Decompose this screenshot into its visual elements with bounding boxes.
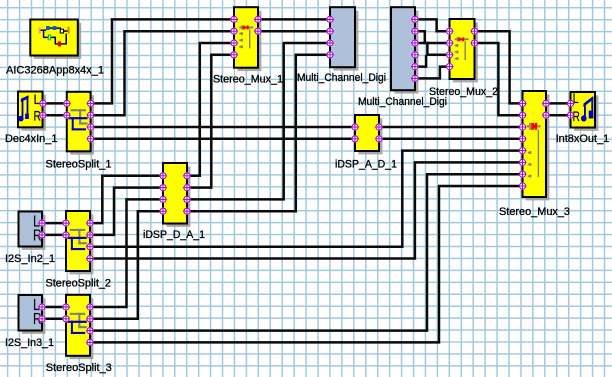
block Stereo_Mux_2	[450, 19, 478, 82]
block I2S_In3_1	[19, 295, 46, 334]
wire StereoSplit_3 out4 to Stereo_Mux_3 in8	[90, 186, 523, 342]
wire iDSP_D_A out2 to Stereo_Mux_1 in4	[187, 55, 234, 188]
pins iDSP_A_D_1 outputs	[375, 123, 383, 143]
pins I2S_In3_1 outputs	[38, 303, 46, 323]
pins StereoSplit_3 outputs	[86, 303, 94, 346]
wire Stereo_Mux_2 out2 to Stereo_Mux_3 in2	[475, 43, 523, 115]
svg-text:L: L	[34, 92, 41, 107]
pins StereoSplit_2 inputs	[62, 219, 70, 239]
block Multi_Channel_Digi_B	[391, 7, 418, 93]
pins StereoSplit_3 inputs	[62, 303, 70, 323]
wire Dec4xIn R to StereoSplit_1 R	[43, 114, 67, 117]
block iDSP_A_D_1	[355, 115, 382, 154]
wire Multi_Channel_Digi_B out6 to Stereo_Mux_2 in4	[415, 67, 450, 79]
wire Multi_Channel_Digi_B out3 to Stereo_Mux_2 in3	[415, 43, 450, 55]
wire StereoSplit_2 out1 to iDSP_D_A in1	[90, 176, 163, 223]
wire iDSP_D_A out3 to Multi_Channel_Digi_A in3	[187, 43, 330, 199]
wire StereoSplit_3 out3 to Stereo_Mux_3 in7	[90, 174, 523, 330]
block Dec4xIn_1	[18, 92, 46, 131]
wire StereoSplit_3 out1 to iDSP_D_A in3	[90, 199, 163, 307]
pins Stereo_Mux_3 outputs	[542, 99, 550, 119]
pins I2S_In2_1 outputs	[38, 219, 46, 239]
pins Int8xOut_1 inputs	[567, 99, 575, 119]
wire Stereo_Mux_3 out2 to Int8xOut R	[546, 114, 571, 117]
wire StereoSplit_2 out2 to iDSP_D_A in2	[90, 188, 163, 235]
svg-text:Stereo_Mux_2: Stereo_Mux_2	[429, 86, 498, 98]
svg-text:I2S_In2_1: I2S_In2_1	[5, 253, 55, 265]
pins iDSP_D_A_1 inputs	[159, 172, 167, 215]
svg-text:iDSP_D_A_1: iDSP_D_A_1	[143, 229, 205, 241]
block Stereo_Mux_3	[523, 91, 550, 200]
wire iDSP_A_D out2 to Stereo_Mux_3 in4	[379, 138, 523, 141]
wire Multi_Channel_Digi_B out2 to Stereo_Mux_2 in2	[415, 31, 450, 43]
wire Multi_Channel_Digi_B out5 stub	[415, 55, 426, 67]
wire StereoSplit_1 out2 to Stereo_Mux_1 in2	[91, 31, 234, 115]
wire StereoSplit_1 out4 to iDSP_A_D in2	[91, 138, 355, 141]
wire I2S_In3 L to StereoSplit_3 L	[42, 306, 66, 309]
pins Stereo_Mux_2 outputs	[471, 27, 479, 47]
pins Dec4xIn_1 outputs	[39, 99, 47, 119]
wire iDSP_D_A out4 to Multi_Channel_Digi_A in4	[187, 55, 330, 211]
pins StereoSplit_2 outputs	[86, 219, 94, 262]
svg-text:I2S_In3_1: I2S_In3_1	[5, 337, 54, 349]
block Multi_Channel_Digi_A	[330, 7, 358, 70]
svg-text:Stereo_Mux_3: Stereo_Mux_3	[499, 206, 570, 218]
pins Multi_Channel_Digi_A inputs	[326, 15, 334, 58]
wire iDSP_D_A out1 to Stereo_Mux_1 in3	[187, 43, 234, 176]
pins Stereo_Mux_1 outputs	[254, 15, 262, 35]
block StereoSplit_1	[67, 92, 94, 155]
pins Stereo_Mux_1 inputs	[230, 15, 238, 58]
svg-text:StereoSplit_1: StereoSplit_1	[46, 158, 112, 170]
block StereoSplit_3	[66, 295, 93, 359]
block Stereo_Mux_1	[234, 7, 261, 71]
wire Stereo_Mux_1 out2 to Multi_Channel_Digi_A in2	[258, 30, 330, 33]
pins StereoSplit_1 inputs	[63, 99, 71, 119]
svg-text:Stereo_Mux_1: Stereo_Mux_1	[213, 74, 283, 86]
svg-text:Dec4xIn_1: Dec4xIn_1	[5, 133, 58, 145]
wire I2S_In2 R to StereoSplit_2 R	[42, 234, 66, 237]
wire StereoSplit_1 out1 to Stereo_Mux_1 in1	[91, 19, 234, 103]
block Int8xOut_1	[571, 91, 599, 131]
wire StereoSplit_2 out3 to Stereo_Mux_3 in5	[90, 151, 523, 247]
wire StereoSplit_1 out3 to iDSP_A_D in1	[91, 126, 355, 129]
wire iDSP_A_D out1 to Stereo_Mux_3 in3	[379, 126, 523, 129]
svg-text:iDSP_A_D_1: iDSP_A_D_1	[335, 159, 397, 171]
wire Multi_Channel_Digi_B out1 to Stereo_Mux_2 in1	[415, 19, 450, 31]
pins iDSP_D_A_1 outputs	[183, 172, 191, 215]
pins Stereo_Mux_3 inputs	[519, 99, 527, 190]
svg-text:Multi_Channel_Digi: Multi_Channel_Digi	[297, 72, 386, 84]
wire Stereo_Mux_2 out1 to Stereo_Mux_3 in1	[475, 31, 523, 103]
wire StereoSplit_3 out2 to iDSP_D_A in4	[90, 211, 163, 319]
wire Stereo_Mux_1 out1 to Multi_Channel_Digi_A in1	[258, 18, 330, 21]
block StereoSplit_2	[66, 211, 93, 274]
svg-text:Int8xOut_1: Int8xOut_1	[556, 133, 610, 145]
svg-text:Multi_Channel_Digi: Multi_Channel_Digi	[358, 96, 447, 108]
pins Multi_Channel_Digi_B outputs	[411, 15, 419, 82]
wire I2S_In3 R to StereoSplit_3 R	[42, 318, 66, 321]
block AIC3268App8x4x_1	[30, 20, 81, 59]
block I2S_In2_1	[19, 212, 46, 250]
pins StereoSplit_1 outputs	[87, 99, 95, 142]
block iDSP_D_A_1	[163, 163, 190, 227]
wire I2S_In2 L to StereoSplit_2 L	[42, 222, 66, 225]
wire Dec4xIn L to StereoSplit_1 L	[43, 102, 67, 105]
svg-text:AIC3268App8x4x_1: AIC3268App8x4x_1	[6, 65, 104, 77]
pins Stereo_Mux_2 inputs	[446, 27, 454, 70]
svg-text:StereoSplit_3: StereoSplit_3	[46, 362, 112, 374]
wire Stereo_Mux_3 out1 to Int8xOut L	[546, 102, 571, 105]
wire StereoSplit_2 out4 to Stereo_Mux_3 in6	[90, 162, 523, 258]
pins iDSP_A_D_1 inputs	[351, 123, 359, 143]
svg-text:StereoSplit_2: StereoSplit_2	[46, 277, 112, 289]
